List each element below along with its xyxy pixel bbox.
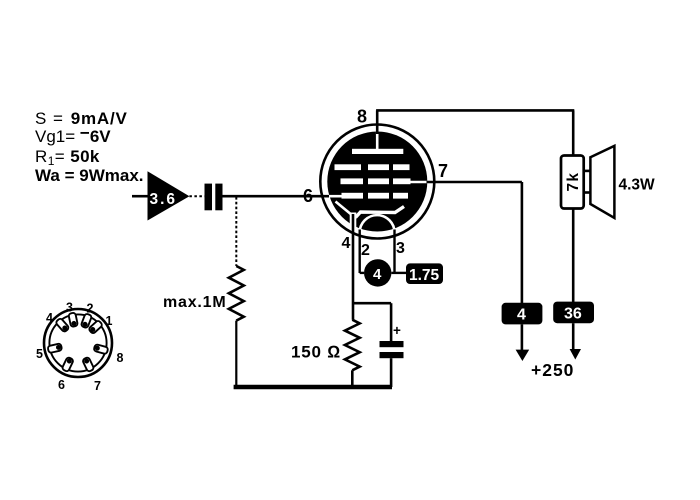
wire capacitor to grid pin 6 <box>223 195 331 198</box>
wire pin7 down to screen tap box <box>521 182 524 303</box>
wire circle to 1.75 box <box>391 272 406 274</box>
pin 4 cathode wire down <box>352 214 355 320</box>
socket contact 5 <box>47 343 62 353</box>
pin 6 label <box>303 186 313 206</box>
svg-text:36: 36 <box>564 306 582 323</box>
capacitor C1 (coupling) <box>205 184 223 211</box>
speaker LS <box>584 146 655 218</box>
bypass capacitor C2 (electrolytic) <box>380 323 404 358</box>
svg-text:3.6: 3.6 <box>150 191 178 208</box>
svg-text:150 Ω: 150 Ω <box>291 343 341 362</box>
pin7 internal lead (white) <box>408 181 428 184</box>
cathode resistor 150 ohm <box>291 320 360 371</box>
svg-text:8: 8 <box>117 351 124 365</box>
screen voltage box 4 <box>502 303 543 325</box>
svg-text:6: 6 <box>58 378 65 392</box>
svg-text:3: 3 <box>66 301 73 315</box>
resistor max.1M <box>163 266 244 321</box>
svg-text:Vg1= −6V: Vg1= −6V <box>35 124 111 147</box>
+250 label <box>531 360 574 380</box>
top wire to output transformer <box>376 110 574 155</box>
pin8 internal lead (white) <box>376 131 379 150</box>
svg-text:5: 5 <box>36 347 43 361</box>
svg-text:+250: +250 <box>531 360 574 380</box>
tube V1 envelope <box>320 125 434 239</box>
grid row 1 <box>335 164 362 170</box>
wire transformer down to box 36 <box>572 208 575 302</box>
grid row 2 <box>341 178 364 184</box>
svg-text:+: + <box>393 323 401 338</box>
pin4 lead channel (white) <box>350 213 357 229</box>
wire resistor to ground rail <box>235 321 237 387</box>
input transducer triangle 3.6 <box>148 171 190 220</box>
svg-text:4: 4 <box>517 307 526 324</box>
socket contact 4 <box>55 318 69 333</box>
branch wire to bypass capacitor <box>353 303 391 341</box>
socket contact 2 <box>81 313 92 328</box>
cathode <box>356 207 405 218</box>
heater arc <box>360 215 395 232</box>
wire resistor to ground rail <box>351 370 354 387</box>
anode bar <box>352 149 403 154</box>
svg-text:2: 2 <box>361 242 370 259</box>
tube socket base diagram: outer rim <box>44 309 112 377</box>
pin 7 label <box>438 161 448 181</box>
svg-text:1.75: 1.75 <box>409 267 440 284</box>
anode voltage box 36 <box>553 302 594 324</box>
wire capacitor to ground rail <box>390 358 393 387</box>
arrow to +250 (right) <box>570 349 581 360</box>
svg-text:max.1M: max.1M <box>163 294 227 311</box>
pin 2 label <box>361 242 370 259</box>
socket contact 7 <box>82 357 94 372</box>
svg-text:7k: 7k <box>565 172 582 192</box>
svg-text:8: 8 <box>357 107 367 127</box>
socket contact 6 <box>62 357 74 372</box>
wire down to grid resistor <box>235 197 237 266</box>
output transformer 7k <box>561 156 584 209</box>
svg-text:7: 7 <box>94 379 101 393</box>
pin 3 heater wire <box>393 230 395 274</box>
wire box36 to arrow <box>572 323 575 349</box>
pin6 internal lead (white) <box>329 195 343 198</box>
parameter text block <box>35 109 144 185</box>
pin 4 label <box>342 235 351 252</box>
wire triangle to capacitor (dotted) <box>189 195 204 197</box>
svg-text:Wa = 9Wmax.: Wa = 9Wmax. <box>35 166 144 185</box>
arrow to +250 (left) <box>516 350 530 361</box>
svg-text:2: 2 <box>87 302 94 316</box>
pin 8 label <box>357 107 367 127</box>
svg-text:4: 4 <box>373 266 382 283</box>
heater current box 1.75 <box>406 263 443 284</box>
grid row 3 <box>342 193 364 199</box>
svg-text:4.3W: 4.3W <box>619 177 656 194</box>
socket contact 3 <box>68 312 78 327</box>
socket contact 8 <box>94 344 109 354</box>
svg-text:3: 3 <box>396 240 405 257</box>
svg-text:4: 4 <box>342 235 351 252</box>
pin 7 wire (screen grid to right) <box>427 181 522 184</box>
socket inner rim <box>49 314 106 371</box>
heater voltage circle 4 <box>364 259 391 286</box>
svg-text:7: 7 <box>438 161 448 181</box>
pin 3 label <box>396 240 405 257</box>
svg-text:6: 6 <box>303 186 313 206</box>
pin 2 heater wire <box>360 230 364 274</box>
tube internal electrodes (white on black) <box>329 131 428 233</box>
socket contact 1 <box>88 320 103 334</box>
svg-text:1: 1 <box>106 314 113 328</box>
ground rail (thick bottom wire) <box>234 385 392 390</box>
svg-text:R1= 50k: R1= 50k <box>35 147 100 168</box>
wire box4 to arrow <box>521 324 524 350</box>
svg-text:4: 4 <box>46 311 53 325</box>
input wire <box>132 195 148 198</box>
socket pin labels <box>36 301 124 394</box>
pin 8 wire (anode to top) <box>376 110 379 134</box>
beam plate diagonal <box>336 202 353 216</box>
